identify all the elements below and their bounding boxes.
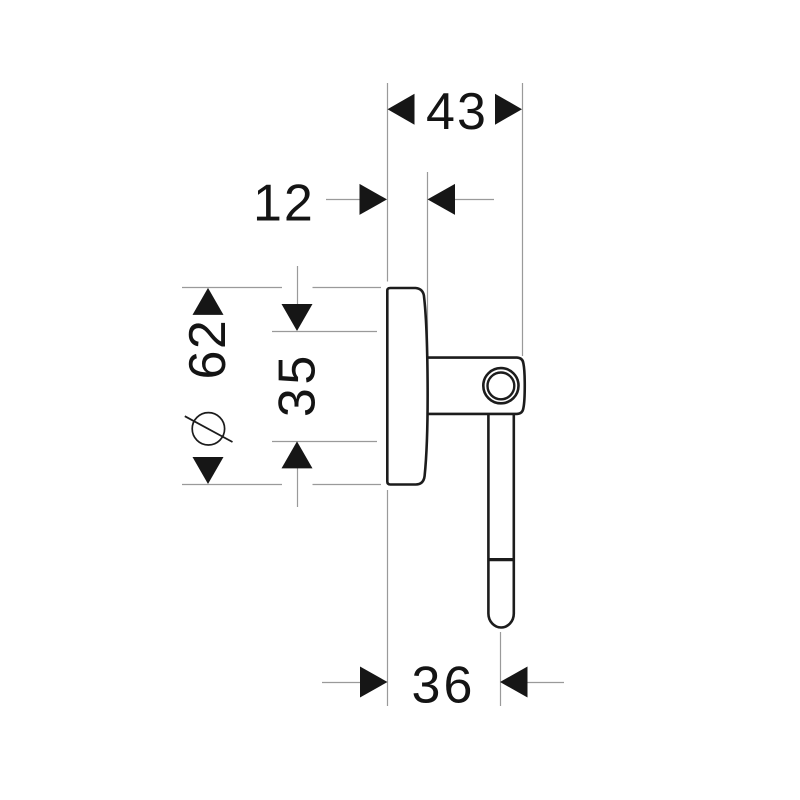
arrow left of 12 dim xyxy=(360,184,388,215)
tail lines of 36 dim xyxy=(322,682,564,684)
extension line bottom of 62 dim xyxy=(182,484,381,486)
arrow top of 62 dim xyxy=(193,288,224,315)
tail lines of 12 dim xyxy=(326,199,494,201)
extension line left of 43/12 dim xyxy=(387,83,389,282)
hook rod xyxy=(488,412,513,628)
extension line left of 36 dim xyxy=(387,490,389,706)
arrow top of 35 dim xyxy=(282,304,313,331)
screw cap outer circle xyxy=(483,368,518,403)
extension line right of 43 dim xyxy=(522,83,524,356)
rod joint line xyxy=(488,558,513,561)
svg-text:12: 12 xyxy=(253,174,313,232)
wall plate xyxy=(387,288,427,485)
extension line top of 62 dim xyxy=(182,287,381,289)
extension line top of 35 dim xyxy=(272,331,377,333)
diameter symbol circle xyxy=(192,413,224,445)
holder arm xyxy=(427,358,525,414)
arrow right of 12 dim xyxy=(428,184,456,215)
arrow left of 43 dim xyxy=(388,94,415,125)
arrow right of 43 dim xyxy=(495,94,522,125)
arrow right of 36 dim xyxy=(500,667,528,698)
leader below 35 dim xyxy=(297,468,299,507)
diameter symbol slash xyxy=(185,416,233,442)
screw cap inner circle xyxy=(488,373,515,400)
extension line bottom of 35 dim xyxy=(272,441,377,443)
extension line right of 12 dim xyxy=(427,172,429,355)
leader above 35 dim xyxy=(297,266,299,305)
svg-text:62: 62 xyxy=(179,320,237,379)
arrow bottom of 35 dim xyxy=(282,441,313,468)
arrow bottom of 62 dim xyxy=(193,457,224,484)
extension line right of 36 dim xyxy=(500,632,502,706)
arrow left of 36 dim xyxy=(360,667,388,698)
